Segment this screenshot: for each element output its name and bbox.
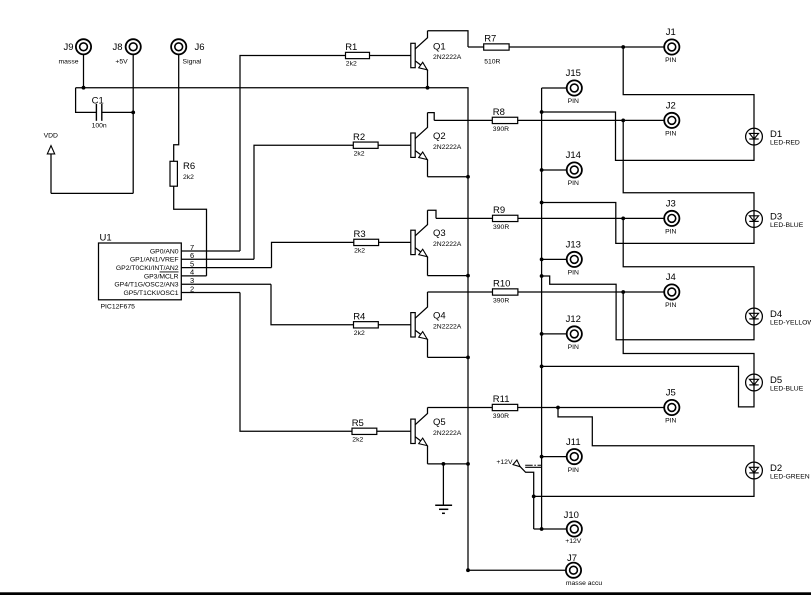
svg-text:R4: R4 — [353, 312, 365, 323]
svg-text:2k2: 2k2 — [346, 61, 357, 68]
svg-text:GP1/AN1/VREF: GP1/AN1/VREF — [130, 257, 179, 264]
svg-text:2N2222A: 2N2222A — [433, 241, 462, 248]
svg-text:PIN: PIN — [665, 229, 676, 236]
svg-text:GP3/MCLR: GP3/MCLR — [144, 273, 179, 280]
svg-text:D4: D4 — [770, 309, 782, 320]
svg-text:J8: J8 — [112, 42, 122, 53]
svg-text:390R: 390R — [493, 126, 509, 133]
svg-text:390R: 390R — [493, 297, 509, 304]
svg-text:LED-BLUE: LED-BLUE — [770, 385, 804, 392]
svg-text:2N2222A: 2N2222A — [433, 144, 462, 151]
svg-text:R8: R8 — [493, 107, 505, 118]
svg-text:J2: J2 — [666, 101, 676, 112]
svg-text:R2: R2 — [353, 132, 365, 143]
svg-text:+12V: +12V — [496, 459, 513, 466]
svg-text:PIN: PIN — [568, 467, 579, 474]
svg-text:2k2: 2k2 — [352, 437, 363, 444]
svg-text:Q3: Q3 — [433, 228, 446, 239]
svg-text:LED-RED: LED-RED — [770, 140, 800, 147]
svg-text:Q5: Q5 — [433, 417, 446, 428]
svg-text:U1: U1 — [100, 232, 112, 243]
svg-text:J9: J9 — [63, 42, 73, 53]
svg-text:R3: R3 — [354, 229, 366, 240]
svg-text:2N2222A: 2N2222A — [433, 323, 462, 330]
svg-text:R9: R9 — [493, 205, 505, 216]
svg-text:R11: R11 — [493, 394, 510, 405]
svg-text:D3: D3 — [770, 211, 782, 222]
svg-text:PIN: PIN — [665, 418, 676, 425]
svg-text:D2: D2 — [770, 463, 782, 474]
svg-text:LED-YELLOW: LED-YELLOW — [770, 319, 811, 326]
svg-text:2N2222A: 2N2222A — [433, 430, 462, 437]
svg-text:+5V: +5V — [115, 59, 128, 66]
svg-text:Q4: Q4 — [433, 311, 446, 322]
svg-text:D1: D1 — [770, 129, 782, 140]
svg-text:J13: J13 — [566, 240, 581, 251]
svg-text:VDD: VDD — [44, 132, 58, 139]
svg-text:PIN: PIN — [568, 270, 579, 277]
svg-text:2k2: 2k2 — [354, 150, 365, 157]
svg-text:PIC12F675: PIC12F675 — [101, 303, 136, 310]
svg-text:J4: J4 — [666, 272, 676, 283]
svg-text:GP0/AN0: GP0/AN0 — [150, 248, 179, 255]
svg-text:2k2: 2k2 — [354, 248, 365, 255]
svg-text:C1: C1 — [92, 95, 104, 106]
svg-text:R6: R6 — [183, 161, 195, 172]
svg-text:masse: masse — [58, 59, 78, 66]
svg-text:R7: R7 — [484, 34, 496, 45]
svg-text:100n: 100n — [92, 123, 107, 130]
svg-text:J5: J5 — [666, 388, 676, 399]
svg-text:PIN: PIN — [568, 98, 579, 105]
svg-text:LED-GREEN: LED-GREEN — [770, 473, 810, 480]
svg-text:J1: J1 — [666, 27, 676, 38]
svg-text:PIN: PIN — [665, 57, 676, 64]
svg-text:J14: J14 — [566, 150, 581, 161]
svg-text:2k2: 2k2 — [183, 174, 194, 181]
svg-text:PIN: PIN — [568, 344, 579, 351]
svg-text:390R: 390R — [493, 413, 509, 420]
svg-text:2k2: 2k2 — [354, 330, 365, 337]
svg-text:PIN: PIN — [665, 302, 676, 309]
svg-text:GP4/T1G/OSC2/AN3: GP4/T1G/OSC2/AN3 — [114, 282, 178, 289]
svg-text:Q2: Q2 — [433, 131, 446, 142]
svg-text:Q1: Q1 — [433, 41, 446, 52]
svg-text:J6: J6 — [195, 42, 205, 53]
svg-text:J15: J15 — [566, 68, 581, 79]
svg-text:J11: J11 — [566, 437, 581, 448]
svg-text:R10: R10 — [493, 279, 510, 290]
svg-text:LED-BLUE: LED-BLUE — [770, 222, 804, 229]
svg-text:masse accu: masse accu — [566, 580, 602, 587]
svg-text:PIN: PIN — [568, 180, 579, 187]
svg-text:+12V: +12V — [565, 538, 582, 545]
svg-text:510R: 510R — [484, 59, 500, 66]
svg-text:J7: J7 — [567, 553, 577, 564]
svg-text:2: 2 — [190, 284, 194, 293]
svg-text:J12: J12 — [566, 314, 581, 325]
svg-text:R1: R1 — [345, 42, 357, 53]
svg-text:PIN: PIN — [665, 131, 676, 138]
svg-text:GP2/T0CKI/INT/AN2: GP2/T0CKI/INT/AN2 — [116, 265, 179, 272]
svg-text:J3: J3 — [666, 199, 676, 210]
svg-text:GP5/T1CKI/OSC1: GP5/T1CKI/OSC1 — [123, 290, 178, 297]
svg-text:2N2222A: 2N2222A — [433, 54, 462, 61]
svg-text:D5: D5 — [770, 375, 782, 386]
svg-text:R5: R5 — [352, 418, 364, 429]
svg-text:390R: 390R — [493, 224, 509, 231]
svg-text:Signal: Signal — [183, 59, 202, 66]
svg-text:J10: J10 — [564, 510, 579, 521]
